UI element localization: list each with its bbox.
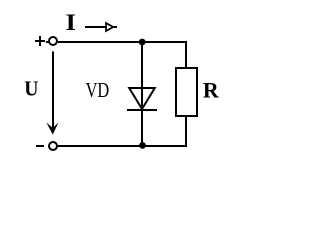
resistor R (rectangular box symbol) bbox=[176, 68, 197, 116]
node junction top (wire to VD branch) bbox=[139, 39, 146, 46]
minus sign bbox=[36, 145, 44, 147]
diode VD (cathode bar) bbox=[127, 109, 157, 111]
voltage arrow U (shaft) bbox=[52, 52, 54, 132]
wire top (from + terminal across to top-right corner, down to resistor R) bbox=[58, 42, 186, 67]
voltage arrow U (arrowhead) bbox=[46, 123, 58, 135]
node junction bottom (VD branch to bottom wire) bbox=[139, 142, 146, 149]
diode VD (triangle anode, hollow) bbox=[129, 88, 155, 109]
svg-text:VD: VD bbox=[86, 79, 110, 102]
svg-text:U: U bbox=[24, 77, 38, 101]
terminal circle + (positive input) bbox=[49, 37, 57, 45]
svg-text:I: I bbox=[66, 10, 76, 35]
wire stub left of + terminal circle bbox=[46, 41, 49, 43]
wire bottom (from resistor R bottom, left to - terminal) bbox=[58, 117, 186, 146]
terminal circle - (negative input) bbox=[49, 142, 57, 150]
current arrow I (open triangular head) bbox=[106, 23, 113, 31]
wire diode branch (vertical through VD) bbox=[141, 42, 143, 146]
svg-text:R: R bbox=[203, 78, 219, 103]
current arrow I (shaft with tail past head) bbox=[85, 26, 117, 28]
plus sign bbox=[35, 36, 45, 46]
